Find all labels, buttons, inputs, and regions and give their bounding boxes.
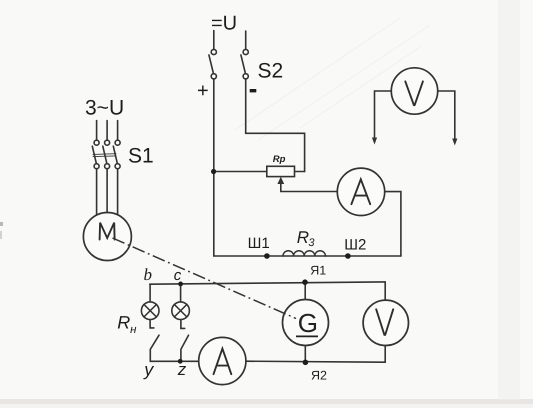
- wire voltmeter V2 bottom stub: [384, 345, 386, 362]
- wire DC supply - lead: [245, 31, 247, 49]
- wire motor feed 1: [96, 169, 98, 216]
- wire generator G bottom stub: [304, 346, 306, 363]
- wire wiper to ammeter A1: [281, 191, 338, 193]
- wire 3-phase line 2 top: [106, 121, 108, 141]
- svg-text:с: с: [174, 267, 182, 284]
- svg-text:Ш2: Ш2: [344, 236, 366, 253]
- switch S2 blade left: [209, 55, 213, 73]
- svg-text:R: R: [117, 312, 130, 332]
- wire load bottom to ammeter A2: [150, 360, 198, 362]
- voltmeter V2 body: [363, 300, 408, 345]
- svg-text:Я2: Я2: [311, 369, 327, 383]
- generator G body: [283, 300, 329, 346]
- wire - bus down and over to Rp: [246, 79, 305, 172]
- wire motor feed 3: [117, 169, 119, 216]
- wire generator G top stub: [304, 282, 306, 299]
- svg-text:R: R: [297, 228, 309, 247]
- svg-text:=U: =U: [211, 13, 237, 35]
- switch S2 contacts: [211, 49, 248, 79]
- node Sh2 dot: [345, 253, 351, 259]
- svg-text:S2: S2: [258, 60, 284, 83]
- svg-text:3~U: 3~U: [85, 97, 124, 120]
- node Ya1 junction dot: [302, 279, 308, 285]
- wire DC supply + lead: [213, 31, 215, 50]
- wire lamp 1 top stub: [149, 284, 151, 302]
- motor M body: [83, 213, 131, 261]
- scan mark left edge: [0, 222, 3, 226]
- voltmeter V1 body: [391, 68, 437, 114]
- faint scan streaks: [235, 18, 430, 140]
- voltmeter V1 left probe arrowhead: [372, 138, 377, 145]
- svg-text:Ш1: Ш1: [248, 235, 270, 252]
- wire Rp left lead: [214, 171, 267, 173]
- lamp HL2 cross: [174, 305, 186, 317]
- switch S1 pole contacts bottom: [94, 164, 120, 169]
- wire motor feed 2: [106, 169, 108, 214]
- junction dot at Rp tap on + bus: [211, 169, 216, 174]
- voltmeter V1 right probe arrowhead: [452, 139, 457, 146]
- voltmeter V1 left probe wire: [375, 91, 392, 139]
- generator G letter underline: [296, 335, 318, 337]
- switch lamp2 blade: [181, 335, 189, 361]
- lamp HL1 cross: [144, 305, 156, 317]
- svg-text:3: 3: [308, 237, 315, 249]
- svg-text:Rp: Rp: [273, 154, 286, 165]
- ammeter A2 letter: [214, 349, 232, 375]
- wire Rp right lead: [295, 171, 305, 173]
- lamp HL2 body: [172, 302, 190, 320]
- switch S1 blade 1: [92, 146, 96, 163]
- label minus: [250, 89, 257, 92]
- ammeter A1 letter: [351, 179, 370, 204]
- voltmeter V1 letter: [405, 81, 423, 105]
- inductor R3 winding: [283, 251, 325, 256]
- switch S1 linkage bar: [93, 154, 116, 157]
- node c junction dot: [178, 282, 183, 287]
- svg-text:Я1: Я1: [310, 264, 326, 278]
- switch S1 blade 3: [113, 146, 117, 163]
- rheostat Rp wiper stem: [280, 182, 282, 192]
- wire armature bottom rail: [246, 361, 385, 362]
- ammeter A1 body: [337, 168, 384, 215]
- lamp HL1 body: [141, 302, 159, 320]
- svg-text:S1: S1: [128, 145, 154, 168]
- voltmeter V1 right probe wire: [438, 91, 455, 140]
- wire 3-phase line 3 top: [117, 121, 119, 141]
- node Sh1 dot: [264, 253, 270, 259]
- svg-text:G: G: [298, 308, 318, 338]
- motor M letter: [100, 223, 115, 240]
- wire + bus down: [213, 79, 215, 256]
- wire armature top rail: [150, 282, 385, 284]
- node Ya2 junction dot: [303, 360, 309, 366]
- voltmeter V2 letter: [376, 309, 393, 335]
- svg-text:b: b: [144, 265, 153, 284]
- wire 3-phase line 1 top: [96, 121, 98, 141]
- wire field circuit bottom: [214, 255, 401, 257]
- svg-text:+: +: [197, 80, 209, 102]
- switch S1 pole contacts top: [94, 140, 120, 145]
- wire lamp 2 top stub: [180, 284, 182, 302]
- wire voltmeter V2 top stub: [384, 282, 386, 300]
- rheostat Rp wiper arrowhead: [277, 177, 284, 184]
- mechanical coupling shaft M to G (dash-dot): [113, 238, 297, 319]
- svg-text:н: н: [130, 324, 137, 336]
- switch lamp1 blade: [150, 335, 159, 361]
- ammeter A2 body: [199, 337, 246, 384]
- switch S1 blade 2: [103, 146, 107, 163]
- node z junction dot: [178, 359, 183, 364]
- switch S2 blade right: [241, 55, 245, 73]
- lamp HL1 bottom stub and hook: [150, 320, 154, 328]
- rheostat Rp body: [267, 166, 295, 176]
- svg-text:у: у: [142, 360, 154, 380]
- wire ammeter A1 right to field bottom: [385, 192, 401, 256]
- svg-text:z: z: [177, 360, 187, 379]
- lamp HL2 bottom stub and hook: [181, 320, 185, 329]
